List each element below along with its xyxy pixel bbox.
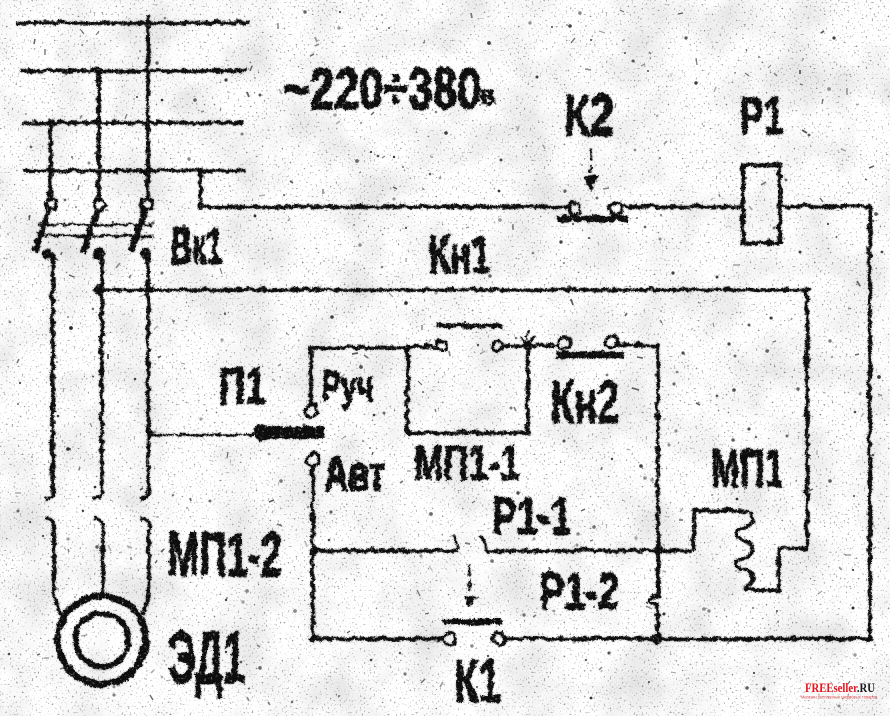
node junction V3-L4 — [46, 166, 52, 172]
node tap on V2 for Kn1 wire — [92, 283, 102, 293]
switch Vk1 linkage bar lower — [38, 233, 152, 236]
svg-text:Магазин бесплатных цифровых то: Магазин бесплатных цифровых товаров — [801, 695, 877, 700]
wire Kn1 line — [97, 286, 806, 290]
wire control feed from L4 — [199, 169, 567, 205]
plug P1 symbol thick bar — [262, 425, 322, 437]
node corner coil top-left elbow — [689, 506, 695, 512]
node corner feed elbow — [196, 202, 202, 208]
wire vertical drop V2 (phase B) — [95, 66, 99, 196]
wire Avt down to bottom rail — [309, 464, 313, 637]
node corner coil bottom elbow — [774, 585, 780, 591]
wire motor lead middle — [99, 528, 103, 596]
contactor coil MP1 curl — [734, 509, 751, 589]
contact MP1-2 pole2 lower hook — [92, 517, 101, 528]
wire bypass left side down — [404, 346, 408, 431]
switch Vk1 lower contact pole 3 — [139, 247, 150, 258]
wire pole 1 to MP1-2 — [49, 252, 53, 492]
wire motor lead right — [141, 528, 147, 612]
contact R1-1 left hook — [450, 533, 456, 549]
node junction V2-L4 — [94, 166, 100, 172]
button K1 actuator stem — [467, 562, 470, 589]
relay coil R1 box — [741, 163, 778, 241]
wire motor lead left — [52, 528, 59, 614]
contact MP1-2 pole1 upper hook — [43, 486, 52, 497]
wire vertical drop V3 (phase C) — [47, 118, 51, 196]
wire bottom rail left — [311, 635, 442, 639]
svg-text:FREEseller.RU: FREEseller.RU — [805, 680, 875, 695]
node corner Ruch elbow — [306, 343, 312, 349]
wire R1 to right rail — [778, 203, 868, 207]
wire bypass right side up — [524, 344, 528, 431]
node junction V1-L3 — [143, 118, 149, 124]
button K1 right contact — [491, 631, 503, 643]
node corner bypass right elbow — [523, 428, 529, 434]
node junction Avt-R11 wire — [307, 545, 315, 553]
wire phase line L1 — [14, 19, 248, 23]
wire R1-1 line right — [484, 547, 692, 551]
button K2 bridge bar — [556, 214, 627, 220]
node corner bypass left elbow — [403, 428, 409, 434]
button K2 right contact — [608, 201, 620, 213]
button Kn2 right contact — [604, 334, 616, 346]
node junction V2-L2 — [93, 65, 101, 73]
contact MP1-1 bridge bar — [434, 322, 501, 327]
wire phase line L2 — [19, 67, 245, 71]
node corner Kn1 right elbow — [802, 285, 808, 291]
contact MP1-2 pole3 lower hook — [139, 517, 148, 528]
wire R1-1 line left — [311, 547, 456, 551]
node control tap on L4 — [195, 165, 203, 173]
wire K2 to R1 coil — [619, 203, 741, 207]
contact MP1-2 pole3 upper hook — [139, 486, 148, 497]
button Kn2 left contact — [556, 335, 568, 347]
contactor coil MP1 bottom lead — [743, 547, 806, 588]
wire Kn2 drop to R1-2 — [654, 344, 658, 596]
node junction V1-L4 — [143, 166, 149, 172]
contact R1-2 hook — [646, 600, 656, 637]
motor ED1 inner circle — [74, 612, 127, 665]
switch Vk1 hinge contact pole 3 — [141, 197, 152, 208]
wire bypass bottom — [406, 429, 526, 433]
wire to MP1-1 contact — [406, 343, 435, 347]
contact Ruch circle — [304, 403, 316, 415]
button K1 left contact — [442, 631, 454, 643]
button K2 actuator stem — [588, 147, 591, 172]
wire pole 3 to MP1-2 — [145, 252, 149, 492]
node tap on V1 for P1 wire — [144, 429, 152, 437]
contactor coil MP1 left lead — [692, 509, 742, 549]
switch Vk1 linkage bar upper — [36, 222, 150, 225]
button K2 left contact — [567, 201, 579, 213]
contact MP1-1 right circle — [491, 339, 501, 349]
contact MP1-1 left circle — [435, 339, 445, 349]
wire right rail down — [866, 205, 870, 637]
wire P1 line — [148, 432, 252, 435]
button K1 actuator arrow — [462, 594, 474, 607]
contact MP1-2 pole2 upper hook — [92, 486, 101, 497]
switch Vk1 blade pole 3 — [129, 206, 144, 250]
wire vertical drop V1 (phase A) — [144, 13, 148, 196]
node junction V1-L2 — [143, 66, 149, 72]
node junction bottom R1-2 — [650, 632, 661, 643]
contact Avt circle — [305, 452, 317, 464]
node junction V1-L1 — [142, 17, 150, 25]
switch Vk1 blade pole 1 — [33, 206, 48, 250]
node corner Kn2 drop elbow — [653, 341, 659, 347]
node junction V3-L3 — [45, 117, 53, 125]
node junction Ruch wire — [402, 342, 410, 350]
node junction V2-L3 — [94, 118, 100, 124]
switch Vk1 lower contact pole 1 — [40, 247, 51, 258]
node junction MP1-1 out — [521, 339, 532, 350]
contact R1-1 right hook — [478, 533, 484, 549]
plug P1 symbol blob — [252, 423, 269, 440]
button Kn2 bridge bar — [555, 350, 622, 357]
wire Kn2 to corner — [616, 343, 656, 344]
wire bottom rail right — [503, 635, 868, 639]
node corner R1 rail top elbow — [865, 202, 871, 208]
wire phase line L3 — [20, 119, 241, 123]
contact MP1-2 pole1 lower hook — [43, 517, 52, 528]
switch Vk1 blade pole 2 — [81, 207, 96, 251]
wire neutral line L4 — [21, 167, 244, 171]
button K2 actuator arrow — [582, 174, 596, 190]
motor ED1 outer circle — [56, 594, 144, 682]
wire pole 2 to MP1-2 — [98, 252, 102, 492]
wire Ruch up and right — [309, 346, 406, 403]
switch Vk1 hinge contact pole 2 — [93, 198, 104, 209]
button K1 bridge bar — [441, 617, 500, 623]
wire MP1-1 to Kn2 — [501, 342, 556, 346]
wire Kn1 right drop — [804, 288, 808, 547]
switch Vk1 lower contact pole 2 — [92, 247, 103, 258]
node junction R11-Kn2drop — [651, 543, 661, 553]
node corner bottom right elbow — [865, 634, 871, 640]
node junction Kn1-V1 — [143, 285, 150, 292]
node corner bottom left elbow — [308, 634, 314, 640]
switch Vk1 hinge contact pole 1 — [45, 197, 56, 208]
